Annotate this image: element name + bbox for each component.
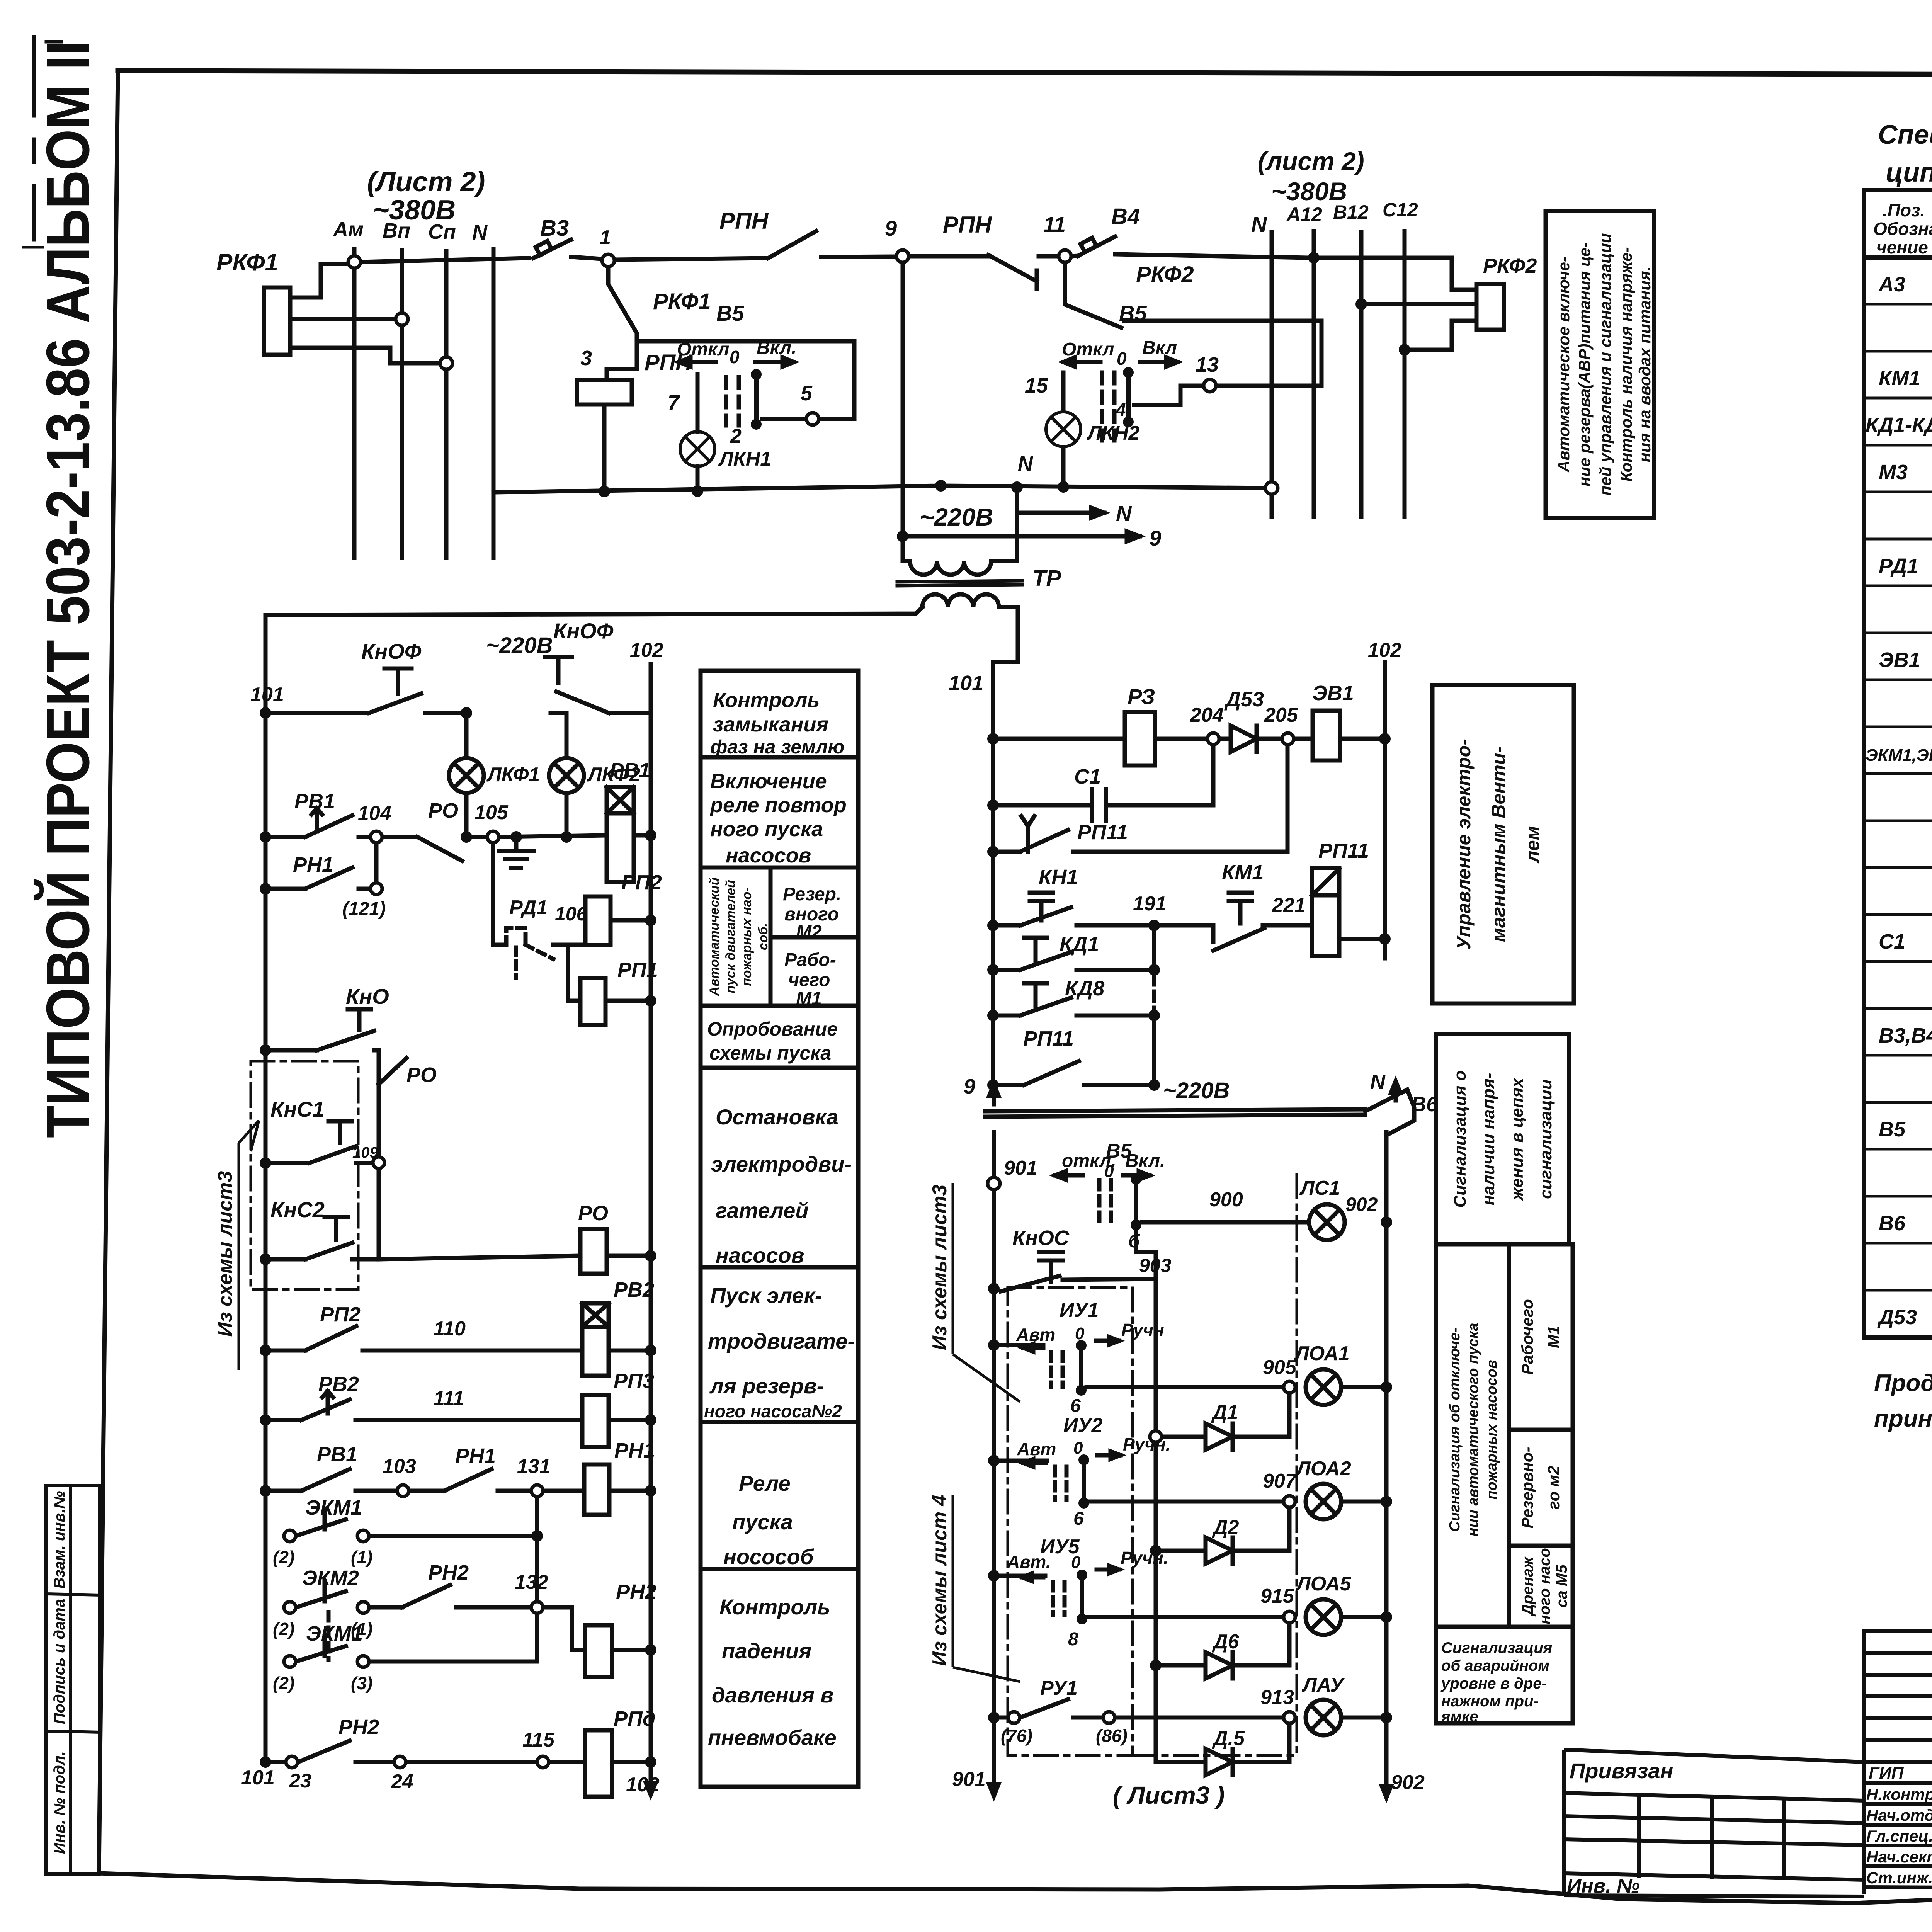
note box AVR: [1546, 211, 1654, 518]
svg-text:РКФ2: РКФ2: [1136, 262, 1194, 287]
svg-text:102: 102: [1368, 639, 1401, 662]
svg-text:РН1: РН1: [614, 1439, 655, 1462]
contact RO NC: [383, 837, 487, 861]
svg-text:Дренаж: Дренаж: [1519, 1556, 1536, 1617]
dashed stems V5 bottom: [1097, 1180, 1102, 1221]
svg-text:103: 103: [383, 1455, 416, 1478]
svg-text:ЭКМ1,ЭКМ2: ЭКМ1,ЭКМ2: [1866, 746, 1932, 765]
svg-text:Ручн.: Ручн.: [1121, 1548, 1168, 1568]
svg-text:ЛАУ: ЛАУ: [1301, 1674, 1345, 1696]
wire KnOF row: [272, 711, 369, 715]
svg-text:КД8: КД8: [1065, 977, 1104, 1000]
phase line C12: [1403, 231, 1407, 517]
svg-text:Автоматическое включе-: Автоматическое включе-: [1554, 257, 1573, 473]
transformer TR primary: [903, 559, 910, 563]
svg-text:пей управления и сигнализации: пей управления и сигнализации: [1596, 233, 1614, 495]
svg-text:Опробование: Опробование: [707, 1018, 838, 1040]
lamp LKN1: [680, 412, 1081, 466]
svg-text:~380В: ~380В: [1271, 177, 1347, 206]
svg-text:РН2: РН2: [338, 1716, 379, 1739]
svg-text:наличии напря-: наличии напря-: [1479, 1073, 1498, 1206]
svg-text:Контроль: Контроль: [713, 689, 820, 712]
svg-text:М2: М2: [796, 922, 822, 942]
svg-text:131: 131: [517, 1455, 551, 1478]
svg-text:Д6: Д6: [1212, 1631, 1240, 1653]
wire node1 to RPN contact: [614, 258, 768, 260]
svg-text:ЛС1: ЛС1: [1299, 1177, 1340, 1199]
svg-text:ямке: ямке: [1440, 1708, 1478, 1725]
svg-text:Резервно-: Резервно-: [1518, 1447, 1536, 1528]
bus 380V top: [359, 258, 529, 262]
svg-text:ного насоса№2: ного насоса№2: [704, 1401, 842, 1421]
svg-text:N: N: [1251, 212, 1267, 236]
svg-text:(2): (2): [273, 1619, 294, 1639]
wire node9 to RPN NC contact: [909, 254, 988, 259]
svg-text:(3): (3): [351, 1673, 372, 1693]
svg-text:носособ: носособ: [723, 1544, 814, 1569]
svg-text:РВ1: РВ1: [294, 790, 335, 813]
svg-text:(1): (1): [351, 1547, 372, 1567]
rail 101 mid: [991, 662, 995, 1085]
svg-text:ного насо: ного насо: [1536, 1548, 1553, 1624]
svg-text:РКФ2: РКФ2: [1483, 254, 1537, 277]
svg-text:11: 11: [1043, 212, 1066, 236]
svg-text:ЛКН2: ЛКН2: [1086, 422, 1139, 444]
lamp LKN2 to N bus: [1061, 448, 1066, 487]
svg-text:РП2: РП2: [621, 871, 662, 894]
phase line Sp: [444, 251, 449, 558]
svg-text:ЭВ1: ЭВ1: [1879, 648, 1920, 672]
svg-text:Сигнализация об отключе-: Сигнализация об отключе-: [1447, 1328, 1463, 1532]
lamp LAU: [1306, 1387, 1386, 1735]
svg-text:Пуск элек-: Пуск элек-: [710, 1283, 822, 1308]
lamps mid column: [0, 0, 2, 2]
rail 102 bottom arrow: [649, 1762, 653, 1792]
svg-text:ЛОА1: ЛОА1: [1294, 1342, 1350, 1365]
svg-text:ГИП: ГИП: [1869, 1764, 1904, 1783]
svg-text:Вкл.: Вкл.: [757, 338, 796, 358]
arrow 9 out: [903, 534, 1140, 539]
svg-text:5: 5: [801, 382, 813, 405]
svg-text:чение: чение: [1876, 237, 1928, 257]
svg-text:падения: падения: [722, 1639, 811, 1663]
svg-text:пневмобаке: пневмобаке: [708, 1725, 837, 1750]
valve EV1 box: [1313, 711, 1340, 760]
junction dots mid section: [987, 733, 1392, 1723]
svg-text:1: 1: [600, 226, 611, 249]
IU5 block: [1000, 1574, 1045, 1578]
dash-dot box KnS1 KnS2: [251, 1061, 358, 1289]
svg-text:КнС2: КнС2: [270, 1197, 325, 1222]
wire node 5 loop up: [637, 341, 854, 419]
wire B12 to RKF2: [1367, 302, 1476, 306]
svg-text:давления в: давления в: [712, 1683, 833, 1707]
wire 205 down: [1286, 745, 1290, 852]
svg-text:РП11: РП11: [1023, 1027, 1074, 1050]
lamp LKN2 stem 15: [1061, 372, 1066, 411]
svg-text:нажном при-: нажном при-: [1441, 1693, 1539, 1710]
relay RP3 box: [582, 1395, 609, 1447]
svg-text:РН1: РН1: [293, 853, 333, 876]
phase line A12: [1312, 231, 1316, 517]
relay RP11 flag box: [1312, 868, 1339, 956]
svg-text:.Поз.: .Поз.: [1883, 200, 1925, 220]
svg-text:КнОС: КнОС: [1012, 1226, 1070, 1250]
button KM1: [1229, 893, 1252, 923]
wire bus to A12 junction and step to RKF2: [1319, 258, 1476, 290]
svg-text:(Лист 2): (Лист 2): [367, 167, 485, 197]
svg-text:РВ1: РВ1: [317, 1443, 357, 1466]
wire rail102 to KnOF2: [609, 711, 651, 715]
svg-text:Подпись и дата: Подпись и дата: [51, 1599, 68, 1724]
svg-text:N: N: [472, 221, 488, 244]
svg-text:ние резерва(АВР)питания це-: ние резерва(АВР)питания це-: [1575, 242, 1594, 486]
svg-text:Резер.: Резер.: [783, 884, 841, 905]
contact RPN (NO): [768, 231, 816, 258]
wire RKF1 to Sp: [290, 348, 441, 363]
svg-text:жения в цепях: жения в цепях: [1508, 1078, 1527, 1201]
svg-text:замыкания: замыкания: [713, 713, 828, 736]
svg-text:0: 0: [1071, 1553, 1081, 1572]
svg-text:В3: В3: [540, 216, 569, 241]
svg-text:Рабо-: Рабо-: [784, 950, 836, 970]
svg-text:РН1: РН1: [455, 1444, 496, 1468]
svg-text:В3,В4: В3,В4: [1879, 1024, 1932, 1047]
svg-text:насосов: насосов: [716, 1243, 804, 1267]
svg-text:ИУ2: ИУ2: [1063, 1414, 1103, 1437]
svg-text:111: 111: [434, 1387, 464, 1410]
button KnS2 row: [272, 1217, 379, 1259]
contact RU1 row: [1000, 1699, 1289, 1718]
svg-text:М1: М1: [796, 988, 822, 1009]
svg-text:РП11: РП11: [1318, 839, 1369, 862]
rail 901 lower: [992, 1132, 996, 1793]
wire bar to node 5: [762, 417, 804, 421]
svg-text:115: 115: [522, 1729, 555, 1751]
wire secondary right to rail 101 mid: [993, 607, 1018, 662]
svg-text:6: 6: [1070, 1396, 1081, 1416]
coil RPN: [577, 380, 632, 405]
wire V6 to rail 902: [1386, 1090, 1414, 1135]
svg-text:905: 905: [1263, 1356, 1297, 1379]
svg-text:221: 221: [1272, 894, 1306, 917]
dash-dot box IU: [1008, 1287, 1133, 1755]
svg-text:907: 907: [1263, 1470, 1297, 1492]
svg-text:Авт: Авт: [1016, 1325, 1055, 1345]
signatures rows: [1864, 1762, 1932, 1866]
wire C12 to RKF2: [1410, 321, 1476, 350]
svg-text:Управление электро-: Управление электро-: [1453, 739, 1475, 950]
svg-text:Вкл: Вкл: [1142, 338, 1177, 358]
phase line Vp: [400, 250, 404, 558]
dash-dot marquee right: [1296, 1175, 1298, 1755]
wire 105 to relay RV1: [499, 835, 607, 837]
svg-text:сигнализации: сигнализации: [1536, 1079, 1555, 1199]
fold marks top-left: [32, 37, 36, 116]
vertical 903: [1154, 1252, 1158, 1755]
svg-text:901: 901: [1004, 1157, 1037, 1179]
svg-text:Гл.спец.: Гл.спец.: [1866, 1827, 1932, 1845]
lamp LOA1: [1306, 1369, 1341, 1405]
svg-text:соб.: соб.: [756, 923, 770, 950]
svg-text:РП3: РП3: [614, 1369, 654, 1393]
svg-text:102: 102: [630, 639, 663, 662]
svg-text:ИУ1: ИУ1: [1060, 1299, 1099, 1321]
svg-text:Из схемы лист3: Из схемы лист3: [929, 1185, 951, 1350]
relay RP1 box: [580, 978, 605, 1025]
svg-text:КнОФ: КнОФ: [553, 619, 614, 643]
svg-text:902: 902: [1345, 1194, 1378, 1215]
ground symbol: [499, 851, 534, 868]
svg-text:101: 101: [241, 1767, 275, 1789]
wire secondary left to rail 101 left (long bus): [265, 607, 922, 615]
breaker V4: [1078, 236, 1115, 256]
svg-text:204: 204: [1190, 704, 1224, 726]
lamp LS1: [1309, 1204, 1345, 1240]
svg-text:Взам. инв.№: Взам. инв.№: [51, 1491, 68, 1588]
svg-text:гателей: гателей: [716, 1198, 809, 1223]
svg-text:РУ1: РУ1: [1040, 1677, 1078, 1699]
bar V5 bottom: [1134, 1179, 1138, 1225]
svg-text:тродвигате-: тродвигате-: [708, 1329, 855, 1353]
svg-text:Сп: Сп: [428, 220, 456, 243]
svg-text:Реле: Реле: [739, 1471, 791, 1495]
svg-text:РЗ: РЗ: [1128, 684, 1155, 709]
switch V5 right: bar: [1126, 372, 1131, 422]
note box signalizaciya ob otklyuchenii: [1436, 1244, 1573, 1723]
relay RV1 box with X: [607, 787, 634, 813]
svg-text:109: 109: [352, 1144, 378, 1161]
svg-text:КМ1: КМ1: [1879, 367, 1920, 390]
svg-text:фаз на землю: фаз на землю: [710, 736, 844, 758]
svg-text:С1: С1: [1074, 765, 1101, 788]
svg-text:РП11: РП11: [1077, 821, 1128, 844]
svg-text:Обозна-: Обозна-: [1873, 219, 1932, 239]
phase line N: [492, 249, 496, 558]
wire RKF1 to Vp: [290, 317, 396, 321]
contact RP11 bottom row: [993, 1061, 1148, 1085]
manometer EKM2 row: [296, 1581, 402, 1607]
svg-text:( Лист3 ): ( Лист3 ): [1113, 1781, 1225, 1809]
note box signalizaciya o nalichii: [1436, 1034, 1569, 1244]
relay RZ box: [1125, 712, 1155, 765]
svg-text:Ручн.: Ручн.: [1123, 1434, 1171, 1454]
open node circles: [348, 250, 1278, 494]
phase line Am: [352, 249, 357, 558]
switch V5 left: bar: [754, 374, 759, 424]
note box Upravlenie ventilem: [1432, 685, 1574, 1003]
svg-text:КнО: КнО: [346, 984, 389, 1009]
svg-text:~220В: ~220В: [486, 633, 553, 658]
svg-text:Вкл.: Вкл.: [1125, 1151, 1165, 1171]
rail 102 left: [649, 664, 653, 1762]
svg-text:РВ1: РВ1: [610, 759, 650, 782]
svg-text:23: 23: [289, 1770, 311, 1792]
svg-text:РО: РО: [406, 1063, 437, 1087]
left privyazan box: [1564, 1750, 1864, 1762]
svg-text:РПд: РПд: [614, 1707, 655, 1730]
svg-text:(86): (86): [1096, 1726, 1128, 1746]
wire b to lamp LS1: [1142, 1220, 1309, 1225]
svg-text:КН1: КН1: [1039, 866, 1078, 889]
svg-text:104: 104: [358, 802, 391, 825]
svg-text:КД1: КД1: [1060, 933, 1099, 956]
svg-text:ТИПОВОЙ ПРОЕКТ 503-2-13.86 АЛЬ: ТИПОВОЙ ПРОЕКТ 503-2-13.86 АЛЬБОМ II: [34, 41, 102, 1138]
svg-text:С1: С1: [1879, 930, 1905, 953]
svg-text:В5: В5: [716, 301, 744, 325]
svg-text:3: 3: [580, 347, 592, 370]
diode D5 branch: [1156, 1718, 1289, 1775]
svg-text:Контроль наличия напряже-: Контроль наличия напряже-: [1617, 247, 1635, 481]
lamp LKN1 cross below: [685, 437, 710, 461]
svg-text:ния на вводах питания.: ния на вводах питания.: [1636, 267, 1654, 463]
svg-text:Д2: Д2: [1212, 1516, 1239, 1539]
contact RPN (NC with bar): [988, 255, 1037, 281]
svg-text:903: 903: [1139, 1255, 1172, 1276]
svg-text:А3: А3: [1878, 273, 1905, 296]
svg-text:схемы пуска: схемы пуска: [709, 1042, 831, 1064]
svg-text:В4: В4: [1111, 204, 1140, 229]
svg-text:9: 9: [964, 1075, 975, 1098]
contact RKF1 from node 1: [607, 267, 637, 380]
switch V5 left: dashed stems: [724, 377, 728, 425]
lamps to RV1 row: [466, 793, 566, 837]
contact RV1 (time) row: [265, 808, 370, 837]
svg-text:N: N: [1116, 501, 1132, 526]
switch V5 left: arrows: [679, 360, 716, 364]
svg-text:Контроль: Контроль: [719, 1595, 830, 1619]
svg-text:Откл: Откл: [1062, 339, 1114, 360]
svg-text:N: N: [1018, 452, 1033, 475]
contact RN2: [402, 1585, 530, 1607]
button KnOF2: [545, 657, 609, 713]
svg-text:13: 13: [1196, 353, 1219, 376]
svg-text:(2): (2): [273, 1673, 294, 1693]
lamp LOA5: [1306, 1599, 1341, 1635]
svg-text:101: 101: [250, 684, 284, 706]
svg-text:Из схемы лист3: Из схемы лист3: [214, 1171, 236, 1337]
svg-text:102: 102: [626, 1774, 660, 1796]
svg-text:ТР: ТР: [1032, 566, 1061, 591]
lamp LKF1: [449, 758, 584, 793]
dashed link EKM2 to EKM1: [327, 1612, 331, 1660]
relay RPd box: [585, 1730, 612, 1797]
svg-text:~220В: ~220В: [920, 503, 993, 531]
svg-text:106: 106: [555, 903, 588, 925]
relay RN1 box: [584, 1464, 609, 1515]
svg-text:0: 0: [1073, 1439, 1083, 1458]
svg-text:4: 4: [1116, 400, 1126, 420]
svg-text:Продолжение спецификаци: Продолжение спецификации для схемы элект…: [1874, 1370, 1932, 1396]
svg-text:РКФ1: РКФ1: [653, 289, 711, 314]
svg-text:Нач.отд.: Нач.отд.: [1866, 1806, 1932, 1824]
svg-text:(лист 2): (лист 2): [1258, 147, 1364, 175]
svg-text:(2): (2): [273, 1547, 294, 1567]
svg-text:КнС1: КнС1: [270, 1097, 325, 1121]
IU1 block: [1000, 1343, 1043, 1347]
phase line N12: [1270, 232, 1274, 517]
contact RN1 row: [265, 867, 370, 889]
svg-text:пожарных нао-: пожарных нао-: [740, 887, 754, 986]
double bus 220V: [985, 1109, 1365, 1111]
svg-text:б: б: [1128, 1231, 1140, 1252]
svg-text:Сигнализация: Сигнализация: [1441, 1639, 1552, 1656]
svg-text:насосов: насосов: [726, 844, 811, 867]
svg-text:101: 101: [949, 672, 983, 695]
svg-text:В6: В6: [1879, 1212, 1906, 1235]
svg-text:ЭКМ2: ЭКМ2: [302, 1566, 359, 1590]
svg-text:ного пуска: ного пуска: [710, 818, 823, 841]
svg-text:Сигнализация о: Сигнализация о: [1451, 1070, 1469, 1207]
rail 101 left: [264, 615, 268, 1762]
svg-text:191: 191: [1133, 893, 1167, 915]
svg-text:КД1-КД8: КД1-КД8: [1866, 413, 1932, 437]
button KnOF1: [369, 668, 421, 713]
dashed rail segment: [991, 975, 995, 1078]
svg-text:электродви-: электродви-: [711, 1152, 852, 1176]
arrow 9 up: [992, 1087, 996, 1104]
svg-text:пуска: пуска: [732, 1510, 793, 1534]
transformer core: [897, 581, 1022, 582]
svg-text:РП2: РП2: [320, 1303, 361, 1326]
svg-text:магнитным Венти-: магнитным Венти-: [1488, 747, 1509, 942]
svg-text:Инв. №: Инв. №: [1567, 1875, 1640, 1897]
wire node105 down to RD1: [493, 843, 506, 945]
IU2 block: [1000, 1459, 1047, 1463]
switch V5 right: dashed stems: [1100, 372, 1104, 440]
wire to lamp LKF2: [551, 713, 566, 758]
diode D53: [1231, 726, 1257, 752]
lamp LOA2: [1306, 1484, 1341, 1519]
svg-text:РО: РО: [428, 799, 458, 822]
svg-text:РН2: РН2: [616, 1580, 656, 1604]
svg-text:ля резерв-: ля резерв-: [709, 1374, 824, 1398]
svg-text:го м2: го м2: [1544, 1466, 1563, 1509]
contact RV1 row 103: [272, 1469, 396, 1491]
svg-text:РВ2: РВ2: [318, 1372, 359, 1396]
svg-text:чего: чего: [788, 970, 830, 990]
open node circles mid: [988, 733, 1295, 1723]
svg-text:132: 132: [515, 1571, 548, 1594]
svg-text:А12: А12: [1286, 204, 1322, 225]
relay RN2 box: [585, 1625, 612, 1677]
svg-text:Рабочего: Рабочего: [1518, 1299, 1536, 1375]
capacitor C1 row: [993, 803, 1092, 808]
svg-text:ципиальноо управления: ципиальноо управления: [1886, 157, 1932, 187]
svg-text:901: 901: [952, 1768, 986, 1791]
button KN1 row: [993, 893, 1148, 925]
vertical 131 down: [535, 1497, 539, 1662]
diode D6 branch: [1156, 1617, 1289, 1679]
bottom row RN2 23-24-115: [265, 1741, 536, 1762]
svg-text:КМ1: КМ1: [1222, 861, 1264, 884]
svg-text:Нач.сект: Нач.сект: [1866, 1848, 1932, 1866]
wire coil RPN to N bus: [602, 405, 607, 492]
svg-text:ЭКМ1: ЭКМ1: [305, 1496, 362, 1519]
button KnO row: [272, 1009, 379, 1050]
svg-text:915: 915: [1260, 1585, 1294, 1607]
button KnS1 row: [272, 1121, 372, 1163]
svg-text:Ам: Ам: [332, 218, 364, 241]
svg-text:ЛКФ1: ЛКФ1: [486, 764, 540, 786]
svg-text:0: 0: [730, 347, 740, 367]
wire RKF1 to Am: [290, 264, 350, 298]
contact RV2 (time) row 111: [272, 1391, 582, 1420]
svg-text:0: 0: [1104, 1162, 1114, 1181]
svg-text:Остановка: Остановка: [716, 1105, 838, 1129]
N bottom bus: [493, 486, 1272, 492]
svg-text:ЭКМ1: ЭКМ1: [306, 1622, 363, 1645]
